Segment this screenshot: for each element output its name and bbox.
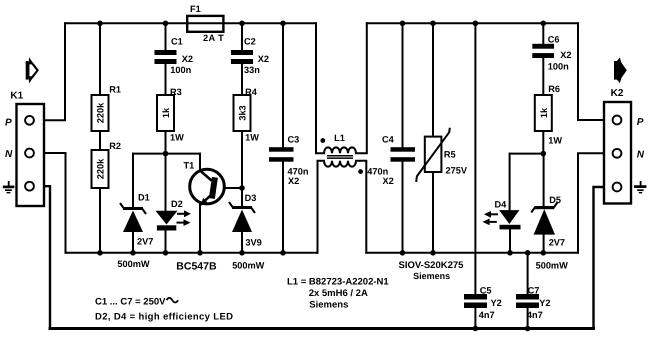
- svg-text:Siemens: Siemens: [413, 271, 450, 281]
- svg-text:K2: K2: [611, 88, 624, 99]
- wire D2 bottom: [165, 231, 167, 253]
- junction mid rail T1 emitter: [197, 250, 203, 256]
- L1 phase dot top: [320, 138, 325, 143]
- wire top rail left section: [65, 22, 316, 24]
- zener diode D5: [531, 203, 557, 235]
- svg-text:100n: 100n: [548, 62, 569, 72]
- svg-text:2x 5mH6 / 2A: 2x 5mH6 / 2A: [309, 288, 368, 299]
- svg-text:3k3: 3k3: [238, 105, 248, 120]
- zener diode D1: [120, 203, 146, 232]
- svg-text:R6: R6: [548, 84, 560, 94]
- wire mid rail left section: [66, 252, 318, 254]
- svg-text:X2: X2: [182, 54, 193, 64]
- junction node C R6/D5: [541, 151, 547, 157]
- svg-text:N: N: [637, 149, 645, 160]
- svg-text:2V7: 2V7: [137, 237, 153, 247]
- fuse F1: [187, 16, 223, 32]
- svg-text:C5: C5: [480, 286, 492, 296]
- wire L1 top-right stub: [356, 23, 367, 153]
- svg-text:Y2: Y2: [491, 298, 502, 308]
- svg-text:X2: X2: [288, 176, 299, 186]
- svg-text:C1: C1: [171, 37, 183, 47]
- wire K1 earth down: [34, 186, 50, 328]
- wire D1 top: [132, 154, 134, 207]
- resistor R2: [92, 150, 109, 188]
- junction mid rail C7: [525, 250, 531, 256]
- wire K1 P to top rail: [34, 23, 65, 120]
- svg-text:C1 ... C7 = 250V: C1 ... C7 = 250V: [95, 296, 166, 307]
- svg-text:F1: F1: [190, 4, 201, 14]
- svg-text:1k: 1k: [161, 107, 171, 118]
- wire D1 bottom: [132, 232, 134, 253]
- ground symbol K1: [3, 181, 15, 193]
- wire K2 earth down: [594, 187, 613, 329]
- svg-text:220k: 220k: [96, 102, 106, 123]
- svg-text:C7: C7: [528, 286, 540, 296]
- wire C5 top (crosses mid rail): [474, 23, 476, 294]
- junction node A R3/D2: [163, 151, 169, 157]
- junction top rail R5: [430, 21, 436, 27]
- capacitor C3: [269, 147, 294, 162]
- wire top rail right section: [367, 22, 578, 24]
- wire C2 to R4: [241, 64, 243, 95]
- junction top rail C1: [163, 21, 169, 27]
- wire C7 top: [527, 253, 529, 294]
- wire K1 N to mid rail: [34, 153, 66, 253]
- wire mid rail right section: [366, 252, 578, 254]
- wire C7 bottom: [527, 308, 529, 329]
- svg-text:500mW: 500mW: [232, 261, 264, 271]
- wire R3 bottom: [165, 131, 167, 154]
- svg-text:K1: K1: [10, 91, 23, 102]
- svg-text:X2: X2: [560, 50, 571, 60]
- svg-text:BC547B: BC547B: [176, 261, 217, 273]
- ground symbol K2: [634, 181, 646, 193]
- resistor R3: [157, 95, 174, 131]
- wire C3 bottom: [282, 162, 284, 253]
- svg-text:1W: 1W: [548, 136, 562, 146]
- junction bottom rail C7: [525, 326, 531, 332]
- connector K2: [604, 102, 631, 204]
- svg-text:T1: T1: [184, 161, 195, 171]
- wire C6 to R6: [542, 58, 544, 95]
- svg-text:1k: 1k: [539, 107, 549, 118]
- wire R1 to R2: [99, 131, 101, 150]
- junction mid rail R2: [97, 250, 103, 256]
- svg-text:100n: 100n: [170, 65, 191, 75]
- wire node C horizontal D4-D5: [510, 153, 543, 155]
- capacitor C7: [516, 294, 539, 308]
- wire C3 top: [282, 23, 284, 147]
- inductor L1 common-mode choke: [324, 147, 356, 166]
- svg-text:2V7: 2V7: [549, 238, 565, 248]
- svg-text:SIOV-S20K275: SIOV-S20K275: [399, 260, 465, 271]
- capacitor C5: [464, 294, 487, 308]
- LED D2: [156, 210, 192, 230]
- transistor Q T1: [190, 169, 225, 205]
- mains input arrow at K1: [26, 57, 38, 83]
- svg-text:X2: X2: [383, 176, 394, 186]
- wire R5 bottom: [432, 172, 434, 253]
- svg-text:P: P: [5, 118, 12, 129]
- svg-text:D2, D4 = high efficiency LED: D2, D4 = high efficiency LED: [95, 312, 233, 323]
- svg-text:33n: 33n: [244, 65, 260, 75]
- wire bottom earth rail: [50, 327, 594, 330]
- wire C4 bottom: [402, 162, 404, 253]
- wire C1 top: [165, 23, 167, 50]
- wire D2 top: [165, 154, 167, 211]
- svg-text:4n7: 4n7: [479, 310, 495, 320]
- svg-text:C2: C2: [244, 37, 256, 47]
- svg-text:275V: 275V: [446, 166, 468, 176]
- resistor R1: [92, 95, 109, 131]
- wire R6 C6 column top: [542, 23, 544, 44]
- resistor R4: [234, 95, 251, 131]
- svg-text:C6: C6: [548, 34, 560, 44]
- svg-text:N: N: [5, 149, 13, 160]
- svg-text:D2: D2: [171, 199, 183, 209]
- wire R6 bottom: [542, 131, 544, 154]
- junction top rail C5: [473, 21, 479, 27]
- wire C5 bottom: [474, 308, 476, 329]
- resistor R6: [535, 95, 552, 131]
- wire T1 base to node B: [217, 187, 243, 189]
- L1 phase dot bottom: [358, 169, 363, 174]
- svg-text:C4: C4: [382, 135, 395, 145]
- capacitor C2: [231, 50, 253, 64]
- wire R5 top: [432, 23, 434, 136]
- svg-text:3V9: 3V9: [245, 238, 261, 248]
- svg-text:R2: R2: [109, 141, 121, 151]
- svg-text:R1: R1: [109, 85, 121, 95]
- junction top rail C3: [280, 21, 286, 27]
- wire C2 top: [241, 23, 243, 50]
- junction mid rail D5: [541, 250, 547, 256]
- junction top rail C6: [541, 21, 547, 27]
- LED D4: [483, 210, 521, 229]
- wire R1 top: [99, 23, 101, 95]
- svg-text:1W: 1W: [245, 133, 259, 143]
- mains output arrow at K2: [614, 57, 627, 83]
- wire T1 emitter down: [199, 205, 201, 253]
- wire R4 bottom node B: [241, 131, 243, 206]
- svg-text:1W: 1W: [170, 133, 184, 143]
- junction mid rail C3: [280, 250, 286, 256]
- svg-text:2A T: 2A T: [203, 33, 224, 43]
- svg-text:Siemens: Siemens: [309, 299, 348, 310]
- svg-text:D5: D5: [549, 195, 561, 205]
- svg-text:P: P: [637, 117, 644, 128]
- wire C4 top: [402, 23, 404, 147]
- capacitor C6: [532, 44, 554, 58]
- zener diode D3: [229, 202, 255, 232]
- junction top rail C2: [239, 21, 245, 27]
- wire L1 bottom-left stub: [318, 161, 325, 253]
- junction mid rail D3: [239, 250, 245, 256]
- svg-text:470n: 470n: [367, 166, 388, 176]
- wire C1 to R3: [165, 64, 167, 95]
- svg-text:Y2: Y2: [539, 298, 550, 308]
- svg-text:500mW: 500mW: [536, 261, 568, 271]
- svg-text:R5: R5: [444, 150, 456, 160]
- svg-text:R4: R4: [245, 87, 258, 97]
- wire K2 P to top rail: [578, 23, 613, 120]
- capacitor C4: [391, 147, 416, 162]
- junction mid rail D2: [163, 250, 169, 256]
- svg-text:D1: D1: [138, 193, 150, 203]
- wire D4 bottom: [509, 229, 511, 252]
- svg-text:500mW: 500mW: [117, 259, 149, 269]
- wire D3 bottom: [241, 232, 243, 253]
- svg-text:220k: 220k: [96, 158, 106, 179]
- junction node B R4/base: [239, 185, 245, 191]
- svg-text:C3: C3: [288, 135, 300, 145]
- wire L1 bottom-right stub: [356, 161, 366, 253]
- wire D4 top: [509, 154, 511, 211]
- wire T1 collector: [199, 154, 201, 171]
- junction mid rail D4: [507, 250, 513, 256]
- wire D5 bottom: [543, 234, 545, 253]
- connector K1: [17, 104, 45, 206]
- junction top rail C4: [400, 21, 406, 27]
- junction mid rail R5: [430, 250, 436, 256]
- wire D5 top: [543, 154, 545, 206]
- svg-text:L1 = B82723-A2202-N1: L1 = B82723-A2202-N1: [287, 276, 389, 287]
- capacitor C1: [155, 50, 177, 64]
- junction mid rail C4: [400, 250, 406, 256]
- wire R2 bottom: [99, 188, 101, 253]
- junction bottom rail C5: [473, 326, 479, 332]
- svg-text:X2: X2: [258, 54, 269, 64]
- varistor R5: [416, 128, 450, 182]
- wire K2 N to mid rail: [578, 153, 613, 253]
- svg-text:D4: D4: [495, 200, 508, 210]
- svg-text:L1: L1: [334, 133, 345, 143]
- wire node A horizontal D1-R3-T1: [133, 153, 200, 155]
- junction top rail R1: [97, 21, 103, 27]
- junction mid rail D1: [130, 250, 136, 256]
- wire L1 top-left stub: [316, 23, 324, 153]
- svg-text:R3: R3: [170, 87, 182, 97]
- svg-text:D3: D3: [245, 193, 257, 203]
- svg-text:4n7: 4n7: [527, 310, 543, 320]
